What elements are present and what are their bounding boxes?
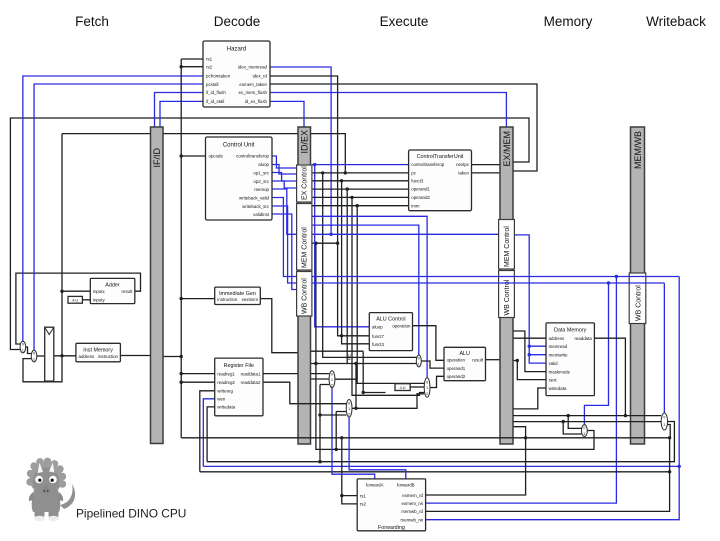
wire rs2 tap <box>181 66 203 68</box>
wire 4.U to mux M012 <box>410 386 424 388</box>
svg-text:1: 1 <box>22 349 24 353</box>
mux MD writeback select <box>661 413 667 430</box>
svg-text:EX/MEM: EX/MEM <box>502 131 512 167</box>
svg-text:0: 0 <box>583 426 585 430</box>
wire forwardB to mux MB (blue) <box>349 417 406 479</box>
svg-text:Forwarding: Forwarding <box>378 525 405 531</box>
wire hazard pcfromtaken (blue) <box>23 76 203 341</box>
wire 4.U to adder inputy <box>82 299 90 301</box>
svg-text:MEM Control: MEM Control <box>504 226 511 267</box>
svg-text:writeback_valid: writeback_valid <box>239 195 270 200</box>
svg-text:idex_rd: idex_rd <box>253 74 268 79</box>
svg-text:op2_src: op2_src <box>253 179 269 184</box>
svg-text:writeback_src: writeback_src <box>242 204 270 209</box>
register file <box>215 358 263 416</box>
wire readreg1 tap <box>181 373 215 375</box>
svg-text:1: 1 <box>418 363 420 367</box>
wire hazard ex_mem_flush (blue) <box>270 93 506 128</box>
ALU control <box>369 313 412 351</box>
instruction memory <box>76 343 121 362</box>
junction (341.8,495.6) <box>340 494 343 497</box>
svg-text:funct3: funct3 <box>411 178 424 183</box>
svg-text:memread: memread <box>549 344 568 349</box>
svg-text:nextpc: nextpc <box>456 162 470 167</box>
svg-text:2: 2 <box>331 383 333 387</box>
svg-text:writereg: writereg <box>217 389 233 394</box>
mux MA forward-A <box>329 371 335 388</box>
wire writeback_src line across bars (blue) <box>312 282 664 284</box>
svg-text:op1_src: op1_src <box>253 170 269 175</box>
wire instruction bus vertical <box>163 59 203 438</box>
svg-text:Execute: Execute <box>380 14 429 29</box>
control unit <box>206 137 273 220</box>
face <box>33 468 60 495</box>
wire memop to EX/MEM (blue) <box>312 233 500 235</box>
svg-text:ALU: ALU <box>459 351 470 357</box>
wire forwarding rs2 <box>342 496 357 504</box>
svg-text:idex_memread: idex_memread <box>238 65 268 70</box>
svg-text:2: 2 <box>348 413 350 417</box>
wire CTU nextpc stub <box>472 164 501 166</box>
svg-text:result: result <box>122 289 134 294</box>
wire EX/MEM address to data memory <box>513 337 546 339</box>
svg-text:forwardB: forwardB <box>397 482 415 487</box>
junction (341.6,180.8) <box>340 179 343 182</box>
svg-text:ex_mem_flush: ex_mem_flush <box>238 90 267 95</box>
wire hazard if_id_flush (blue) <box>155 93 204 128</box>
eyes <box>35 476 43 484</box>
svg-text:Writeback: Writeback <box>646 14 706 29</box>
svg-text:EX Control: EX Control <box>302 166 309 200</box>
wire CTU taken stub <box>472 172 501 174</box>
dino mascot <box>26 458 75 522</box>
wire rd / instruction writeback line bottom <box>181 425 670 438</box>
svg-text:sext: sext <box>549 377 558 382</box>
wire mux M01 out to ALU operand1 <box>421 361 444 368</box>
wire pc branch to alu mux M01 <box>323 173 417 358</box>
svg-text:Hazard: Hazard <box>227 47 246 53</box>
wire alu result line to muxes <box>513 421 661 423</box>
wire memwb_rd vertical <box>426 438 670 512</box>
svg-text:WB Control: WB Control <box>635 285 642 321</box>
wire pc to adder inputx <box>62 290 90 292</box>
ID/EX EX Control section <box>297 165 312 202</box>
junction (181.2,298.6) <box>180 297 183 300</box>
svg-text:pcfromtaken: pcfromtaken <box>206 74 231 79</box>
ID/EX MEM Control section <box>297 204 312 271</box>
svg-text:0: 0 <box>426 380 428 384</box>
wire operand2 to CTU <box>312 196 409 198</box>
svg-text:operation: operation <box>447 358 466 363</box>
svg-text:controltransferop: controltransferop <box>411 162 445 167</box>
svg-text:PC: PC <box>347 354 352 360</box>
junction (616.4,276.5) <box>615 275 618 278</box>
wire mem stage result line <box>513 415 661 417</box>
svg-text:exmem_rw: exmem_rw <box>402 501 424 506</box>
svg-text:aluop: aluop <box>372 325 383 330</box>
svg-text:Memory: Memory <box>544 14 593 29</box>
wire CU opcode <box>181 155 205 157</box>
svg-text:if_id_flush: if_id_flush <box>206 90 226 95</box>
svg-text:operand2: operand2 <box>411 195 430 200</box>
junction (320,461.7) <box>318 460 321 463</box>
wire hazard pcstall (blue) <box>34 84 203 350</box>
junction (315.9,363.5) <box>314 362 317 365</box>
junction (517.3,360.5) <box>516 359 519 362</box>
wire writeback_valid line across bars (blue) <box>312 276 679 278</box>
svg-text:1: 1 <box>331 378 333 382</box>
svg-text:Immediate Gen: Immediate Gen <box>219 291 256 297</box>
forwarding unit <box>357 479 425 531</box>
junction (320,415) <box>318 413 321 416</box>
mux M01 alu-op1 select <box>416 355 421 367</box>
wire idex imm out vertical <box>363 351 385 392</box>
junction (529.2,346.2) <box>528 345 531 348</box>
mux M2 pc-stall select <box>31 350 37 362</box>
wire imm to CTU <box>312 205 409 207</box>
junction (181.2,373.6) <box>180 372 183 375</box>
svg-text:operand1: operand1 <box>447 366 466 371</box>
svg-text:1: 1 <box>663 423 665 427</box>
wire pc vertical <box>61 134 63 356</box>
mux MB forward-B <box>346 400 352 418</box>
wire PC to inst memory address <box>54 355 76 357</box>
wire maskmode from EX/MEM <box>513 331 546 372</box>
snout <box>42 484 51 494</box>
svg-text:0: 0 <box>331 372 333 376</box>
junction (363.2,392.5) <box>362 391 365 394</box>
junction pc-instmem <box>60 354 63 357</box>
constant 4.U (execute) <box>395 384 410 391</box>
wire readdata to result mux <box>594 338 625 415</box>
svg-text:ALU Control: ALU Control <box>376 317 405 323</box>
frill <box>26 458 66 495</box>
wire forwarding rs1 <box>342 438 357 496</box>
junction (181.2,156) <box>180 154 183 157</box>
wire CU aluop (blue) <box>272 165 297 175</box>
junction (347.2,189.1) <box>346 187 349 190</box>
svg-text:operand2: operand2 <box>447 374 466 379</box>
wire readdata2 to bar <box>263 382 298 404</box>
wire CU op2_src (blue) <box>272 181 297 188</box>
svg-text:result: result <box>472 358 484 363</box>
wire exmem_rw forwarding (blue) <box>426 277 617 504</box>
wire mux M1 to mux M2 <box>26 347 32 354</box>
immediate generator <box>215 287 261 304</box>
wire MA input1 from bar <box>311 378 330 380</box>
svg-text:taken: taken <box>458 171 469 176</box>
junction (341.8,437.8) <box>340 436 343 439</box>
wire operand1 branch down <box>346 189 348 363</box>
mux M1 pc-taken select <box>20 341 26 353</box>
svg-text:exmem_taken: exmem_taken <box>239 82 267 87</box>
adder <box>90 278 135 303</box>
pipeline register ID/EX <box>298 127 311 444</box>
wire op2_src select (blue) <box>312 225 419 355</box>
wire CU op1_src (blue) <box>272 173 297 182</box>
wire mux MC input1 <box>563 422 581 434</box>
svg-text:rs2: rs2 <box>360 502 367 507</box>
svg-text:readdata: readdata <box>574 336 592 341</box>
svg-text:1: 1 <box>33 358 35 362</box>
svg-text:writedata: writedata <box>217 405 235 410</box>
svg-text:4.U: 4.U <box>72 299 78 303</box>
junction (181.2,356.5) <box>180 355 183 358</box>
svg-text:Register File: Register File <box>224 363 254 369</box>
svg-text:address: address <box>549 336 565 341</box>
wire taken to hazard exmem_taken <box>270 84 537 171</box>
svg-text:0: 0 <box>348 401 350 405</box>
wire writeback_valid vertical part (blue) <box>426 277 680 520</box>
wire mux M012 out to ALU operand2 <box>430 376 444 387</box>
svg-text:MEM Control: MEM Control <box>302 227 309 268</box>
wire funct3 branch to ALU Control <box>342 181 370 344</box>
wire mux MD out <box>207 422 674 462</box>
wire readdata1 to ID/EX and mux MA <box>263 373 329 375</box>
wire operand2 branch down <box>352 197 424 395</box>
junction funct7 cross <box>340 334 343 337</box>
svg-text:rs1: rs1 <box>206 57 213 62</box>
wire exmem_rd from EX/MEM <box>426 427 526 495</box>
svg-text:forwardA: forwardA <box>366 482 384 487</box>
wire CU validinst (blue) <box>272 214 297 290</box>
wire ALU Control operation to ALU <box>413 326 445 361</box>
svg-text:WB Control: WB Control <box>302 278 309 314</box>
svg-text:writedata: writedata <box>549 386 567 391</box>
wire hazard if_id_stall (blue) <box>160 101 203 127</box>
junction pc-adder <box>60 290 63 293</box>
horns <box>38 463 44 474</box>
svg-text:sextimm: sextimm <box>242 297 259 302</box>
constant 4.U (fetch) <box>68 296 82 303</box>
svg-text:funct7: funct7 <box>372 334 385 339</box>
wire mux MB out to mux M012 <box>352 394 424 409</box>
ALU <box>444 347 486 380</box>
svg-text:funct3: funct3 <box>372 342 385 347</box>
MEM/WB WB Control section <box>629 273 646 324</box>
junction (337.6,243.2) <box>336 242 339 245</box>
junction (345.3,172.9) <box>344 171 347 174</box>
wire op1_src select (blue) <box>312 216 427 377</box>
junction (529.2,354.7) <box>528 353 531 356</box>
junction (356,363.5) <box>354 362 357 365</box>
svg-text:pc: pc <box>411 171 416 176</box>
svg-text:readdata1: readdata1 <box>241 371 261 376</box>
wire imm branch to mux M012 <box>357 206 424 384</box>
PC register <box>45 327 352 381</box>
svg-text:aluop: aluop <box>258 162 269 167</box>
junction exmem_rd on rd line <box>524 436 527 439</box>
svg-text:0: 0 <box>33 351 35 355</box>
wire wen from writeback (blue) <box>203 399 214 467</box>
junction (322.7,172.9) <box>321 171 324 174</box>
wire adder result loop <box>16 273 141 344</box>
arms <box>29 492 34 501</box>
junction (356,408.3) <box>354 407 357 410</box>
svg-text:MEM/WB: MEM/WB <box>633 131 643 169</box>
svg-text:inputx: inputx <box>93 289 106 294</box>
svg-text:0: 0 <box>663 416 665 420</box>
wire hazard idex_memread (blue) <box>270 67 331 234</box>
svg-text:maskmode: maskmode <box>549 369 571 374</box>
svg-text:readreg2: readreg2 <box>217 380 235 385</box>
svg-text:readreg1: readreg1 <box>217 371 235 376</box>
svg-text:4.U: 4.U <box>400 386 406 390</box>
wire funct3 to CTU <box>312 180 409 182</box>
mux MC mem-readdata select <box>582 425 588 437</box>
wire memop out to data memory controls (blue) <box>513 235 546 363</box>
wire hazard idex_rd <box>270 76 369 336</box>
EX/MEM MEM Control section <box>499 220 515 270</box>
wire writereg from writeback <box>200 391 215 472</box>
wire pc to CTU <box>312 172 409 174</box>
wire CU writeback_valid (blue) <box>272 198 297 277</box>
svg-text:Data Memory: Data Memory <box>554 327 587 333</box>
svg-text:wen: wen <box>217 397 226 402</box>
junction (669.6,437.8) <box>668 436 671 439</box>
svg-text:pcstall: pcstall <box>206 82 218 87</box>
wire ALU result to EX/MEM <box>486 359 501 361</box>
svg-text:operation: operation <box>392 324 411 329</box>
junction (625.4,415.6) <box>624 414 627 417</box>
svg-text:ControlTransferUnit: ControlTransferUnit <box>417 154 464 160</box>
mux M012 alu-op2 select <box>424 378 430 397</box>
pipeline register IF/ID <box>151 127 164 444</box>
wire pc stall feedback loop <box>23 356 62 382</box>
svg-text:Pipelined DINO CPU: Pipelined DINO CPU <box>76 507 186 521</box>
wire readdata2 across ID/EX to mux MB <box>298 403 346 405</box>
junction (314.7,164.6) <box>313 163 316 166</box>
svg-text:IF/ID: IF/ID <box>152 148 162 168</box>
svg-text:Adder: Adder <box>105 283 120 289</box>
wire sext from EX/MEM <box>513 361 546 380</box>
wire operand1 line to mux M01 input1 <box>311 363 417 365</box>
svg-text:inputy: inputy <box>93 298 106 303</box>
svg-text:1: 1 <box>348 407 350 411</box>
wire mem-forward vertical <box>336 412 346 450</box>
wire readreg2 tap <box>181 381 215 383</box>
svg-text:validinst: validinst <box>253 212 270 217</box>
wire writeback_src vertical part (blue) <box>663 283 665 413</box>
wire aluop branch to ALU Control (blue) <box>315 165 370 327</box>
hazard unit <box>203 41 270 107</box>
wire wb-forward vertical <box>320 385 346 462</box>
svg-text:ID/EX: ID/EX <box>300 130 310 154</box>
wire CU memop (blue) <box>272 189 297 234</box>
wire mux MC input0 <box>568 416 581 429</box>
wire writereg writeback line <box>200 471 670 473</box>
svg-text:rs2: rs2 <box>206 65 213 70</box>
wire mem stage result line (moved) <box>567 414 570 417</box>
svg-text:readdata2: readdata2 <box>241 380 261 385</box>
svg-text:memop: memop <box>254 187 269 192</box>
svg-text:opcode: opcode <box>209 154 224 159</box>
junction (331.1,234.3) <box>329 233 332 236</box>
wire CU controltransferop (blue) <box>272 156 297 168</box>
wire controltransferop to CTU (blue) <box>312 164 409 166</box>
junction (352,197.4) <box>350 196 353 199</box>
svg-text:memwb_rd: memwb_rd <box>401 509 423 514</box>
junction (669.6,471.8) <box>668 470 671 473</box>
svg-text:rs1: rs1 <box>360 493 367 498</box>
junction (357.2,205.7) <box>356 204 359 207</box>
tail <box>60 484 75 509</box>
svg-text:valid: valid <box>549 361 559 366</box>
junction (181.2,66.7) <box>180 65 183 68</box>
svg-text:controltransferop: controltransferop <box>236 154 270 159</box>
svg-text:WB Control: WB Control <box>504 279 511 315</box>
junction (679.2,466.4) <box>678 465 681 468</box>
ID/EX WB Control section <box>297 272 312 317</box>
svg-text:imm: imm <box>411 203 420 208</box>
svg-text:Inst Memory: Inst Memory <box>83 347 113 353</box>
data memory <box>546 323 594 396</box>
svg-text:2: 2 <box>426 392 428 396</box>
pipeline register EX/MEM <box>500 127 513 444</box>
junction (336.2,449.4) <box>335 448 338 451</box>
EX/MEM WB Control section <box>499 271 515 318</box>
svg-text:instruction: instruction <box>98 354 119 359</box>
wire wen writeback (blue) <box>203 465 679 467</box>
wire pc ID/EX to CTU pc <box>311 134 346 173</box>
svg-text:1: 1 <box>583 432 585 436</box>
svg-text:operand1: operand1 <box>411 187 430 192</box>
junction (608.5,283) <box>607 281 610 284</box>
pipeline register MEM/WB <box>631 127 645 444</box>
svg-text:if_id_stall: if_id_stall <box>206 99 224 104</box>
svg-text:memwrite: memwrite <box>549 353 569 358</box>
junction (315.9,243.2) <box>314 242 317 245</box>
wire immgen instruction tap <box>181 298 215 300</box>
svg-text:0: 0 <box>22 342 24 346</box>
body <box>32 490 61 512</box>
wire operand1 to CTU <box>312 188 409 190</box>
wire writedata from EX/MEM <box>513 388 546 409</box>
svg-text:1: 1 <box>426 386 428 390</box>
control transfer unit <box>409 150 472 211</box>
wire forwardA to mux MA (blue) <box>332 388 375 479</box>
wire mux M2 to PC <box>37 355 45 357</box>
svg-text:exmem_rd: exmem_rd <box>402 493 423 498</box>
wire mux MC out to writeback line <box>316 243 594 449</box>
wire mux MC select (blue) <box>584 283 608 425</box>
junction (181.2,382.2) <box>180 381 183 384</box>
wire nextpc loop to pc mux <box>10 118 529 350</box>
svg-text:address: address <box>79 354 95 359</box>
svg-text:memwb_rw: memwb_rw <box>401 518 424 523</box>
wire imm out of ID/EX <box>311 350 364 352</box>
legs <box>35 505 45 519</box>
wire alu result line (moved) <box>562 420 565 423</box>
svg-text:0: 0 <box>418 356 420 360</box>
wire pc through IF/ID <box>62 133 298 135</box>
wire instruction to IF/ID <box>120 355 150 357</box>
wire immgen sextimm to ID/EX <box>260 299 298 353</box>
svg-text:Fetch: Fetch <box>75 14 109 29</box>
wire CU writeback_src (blue) <box>272 206 297 283</box>
svg-text:Decode: Decode <box>214 14 261 29</box>
svg-text:id_ex_flush: id_ex_flush <box>245 99 268 104</box>
wire mux MA out <box>335 364 356 409</box>
svg-text:instruction: instruction <box>217 297 238 302</box>
svg-text:Control Unit: Control Unit <box>223 143 255 149</box>
wire writedata from writeback <box>207 407 215 462</box>
wire hazard id_ex_flush (blue) <box>270 101 304 127</box>
